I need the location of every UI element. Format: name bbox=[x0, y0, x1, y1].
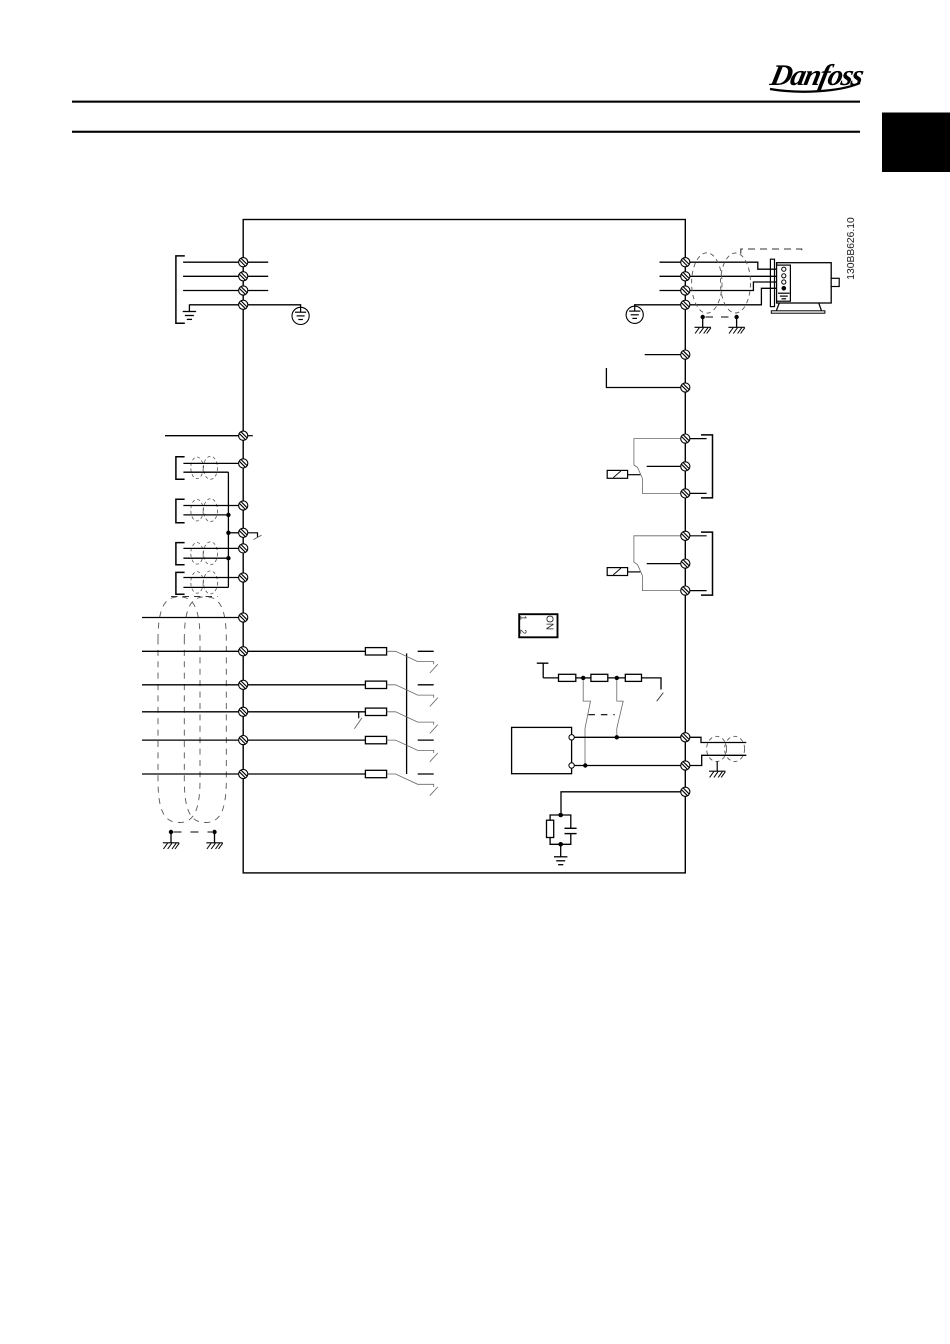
wire R1-R2 bbox=[576, 677, 591, 679]
analog pair 4 shield bbox=[191, 571, 218, 594]
switch DI27 bbox=[387, 712, 438, 734]
motor shield ellipse 1 bbox=[692, 253, 722, 313]
wire 18 right bbox=[248, 650, 366, 652]
resistor chain R2 bbox=[591, 674, 608, 681]
terminal aux bbox=[239, 573, 248, 582]
header rule 2 bbox=[72, 131, 860, 133]
switch DI18 bbox=[387, 651, 438, 673]
shield dot left 1 bbox=[169, 830, 173, 834]
contact dash DI29 bbox=[418, 739, 434, 741]
RC cap branch bbox=[561, 815, 571, 828]
relay 1 coil stub bbox=[628, 474, 641, 476]
terminal 95 PE bbox=[239, 300, 248, 309]
blade chain bbox=[657, 693, 664, 702]
wire 32 left bbox=[142, 773, 239, 775]
bracket A53 bbox=[176, 457, 185, 480]
wire 54 bbox=[183, 505, 238, 507]
RC gnd stem bbox=[560, 844, 562, 857]
RC resistor bbox=[547, 820, 554, 837]
shield gnd stem 2 bbox=[736, 317, 738, 327]
wire 42 bbox=[183, 547, 238, 549]
junction dot 55 bbox=[226, 531, 230, 535]
svg-text:130BB626.10: 130BB626.10 bbox=[846, 217, 857, 280]
wire R2-R3 bbox=[608, 677, 626, 679]
wire 20 common bbox=[142, 617, 239, 619]
motor cable V bbox=[690, 275, 782, 277]
relay 2 stub 04 bbox=[690, 535, 707, 537]
motor cable U bbox=[690, 262, 782, 269]
wire W inside bbox=[660, 290, 681, 292]
relay 2 stub 05 bbox=[647, 563, 681, 565]
wire 29 right bbox=[248, 739, 366, 741]
terminal 92 L2 bbox=[239, 272, 248, 281]
relay 1 stub 01 bbox=[690, 438, 707, 440]
wire 19 right bbox=[248, 684, 366, 686]
wire 61 bbox=[561, 792, 681, 813]
terminal 93 L3 bbox=[239, 286, 248, 295]
bracket A54 bbox=[176, 499, 185, 523]
block pin 1 bbox=[569, 735, 574, 740]
switch DI32 bbox=[387, 774, 438, 796]
motor base plate bbox=[771, 311, 825, 313]
relay 2 coil stub bbox=[628, 571, 641, 573]
blade 27 bbox=[354, 718, 362, 729]
terminal 01 bbox=[681, 434, 690, 443]
terminal 88 bbox=[681, 350, 690, 359]
svg-text:2: 2 bbox=[518, 629, 528, 634]
wire U inside bbox=[660, 261, 681, 263]
wire V inside bbox=[660, 275, 681, 277]
terminal 99 PE bbox=[681, 300, 690, 309]
protective earth right bbox=[626, 306, 643, 323]
wire 19 left bbox=[142, 684, 239, 686]
resistor DI18 bbox=[365, 648, 386, 655]
ground mains bbox=[188, 304, 190, 311]
analog pair 1 shield bbox=[191, 456, 218, 479]
stub 27 output bbox=[358, 712, 360, 719]
gang link dashed bbox=[588, 714, 614, 716]
block pin 2 bbox=[569, 763, 574, 768]
supply block bbox=[512, 727, 572, 773]
RC capacitor bbox=[565, 828, 577, 833]
wire 13 bbox=[574, 765, 680, 767]
RC bottom dot bbox=[558, 842, 563, 847]
relay 2 coil bbox=[607, 568, 627, 576]
terminal 61 bbox=[681, 787, 690, 796]
junction dot 54 bbox=[226, 513, 230, 517]
terminal 05 bbox=[681, 559, 690, 568]
relay 2 contact path bbox=[634, 536, 680, 591]
motor terminal PE dot bbox=[782, 286, 787, 291]
wire 53 return bbox=[183, 471, 228, 473]
switch S201 bbox=[583, 680, 590, 765]
motor shield ellipse 2 bbox=[721, 253, 751, 313]
relay 1 stub 02 bbox=[647, 465, 681, 467]
motor shaft bbox=[831, 278, 839, 286]
dashed screen corner bbox=[741, 249, 802, 254]
motor cable W bbox=[690, 282, 782, 291]
control cable shield loop 2 bbox=[184, 597, 226, 823]
wire 54 return bbox=[183, 514, 228, 516]
24V bus vertical bbox=[406, 653, 408, 774]
shield gnd stem left 1 bbox=[170, 832, 172, 843]
terminal 89 bbox=[681, 383, 690, 392]
common trunk wire bbox=[227, 472, 229, 587]
relay 1 contact path bbox=[634, 439, 680, 494]
shield dot left 2 bbox=[212, 830, 216, 834]
terminal 97 V bbox=[681, 272, 690, 281]
motor terminal box bbox=[777, 265, 791, 301]
shield gnd stem left 2 bbox=[214, 832, 216, 843]
motor pedestal bbox=[776, 303, 821, 311]
relay 2 bracket bbox=[701, 532, 713, 595]
terminal 27 bbox=[239, 707, 248, 716]
wire R3 end bbox=[642, 678, 662, 690]
motor body bbox=[777, 263, 832, 303]
wire 27 right bbox=[248, 711, 366, 713]
shield bond dot 1 bbox=[701, 315, 705, 319]
terminal 20 bbox=[239, 613, 248, 622]
motor ground bbox=[778, 293, 790, 299]
junction dot 13 bbox=[583, 763, 587, 767]
wire 12 bbox=[574, 736, 680, 738]
frequency converter enclosure box bbox=[243, 220, 685, 873]
resistor DI29 bbox=[365, 736, 386, 743]
24V source T bbox=[537, 663, 559, 678]
blade 55 bbox=[254, 535, 262, 539]
switch S202 bbox=[617, 680, 623, 737]
RC top dot bbox=[558, 813, 563, 818]
junction dot chain 1 bbox=[581, 676, 585, 680]
bus wire N bbox=[690, 755, 746, 765]
resistor chain R1 bbox=[559, 674, 576, 681]
resistor DI27 bbox=[365, 708, 386, 715]
contact dash DI18 bbox=[418, 650, 434, 652]
header rule 1 bbox=[72, 101, 860, 103]
relay 1 stub 03 bbox=[690, 492, 707, 494]
terminal 04 bbox=[681, 531, 690, 540]
motor terminal U bbox=[782, 267, 786, 271]
contact dash DI19 bbox=[418, 684, 434, 686]
control cable shield loop 1 bbox=[158, 597, 200, 823]
RC resistor bottom bbox=[550, 838, 561, 845]
wire L1 bbox=[183, 261, 268, 263]
shield gnd stem 1 bbox=[702, 317, 704, 327]
svg-text:1: 1 bbox=[518, 615, 528, 620]
wire PE input bbox=[189, 305, 300, 308]
junction dot chain 2 bbox=[615, 676, 619, 680]
shield bond dot 2 bbox=[734, 315, 738, 319]
bracket aux bbox=[176, 572, 185, 594]
terminal 96 U bbox=[681, 258, 690, 267]
motor terminal V bbox=[782, 274, 786, 278]
cable clamp bar bbox=[770, 259, 774, 306]
terminal 18 bbox=[239, 647, 248, 656]
terminal 19 bbox=[239, 680, 248, 689]
terminal 32 bbox=[239, 769, 248, 778]
wire PE motor inside bbox=[635, 305, 681, 311]
bus shield ellipse 2 bbox=[725, 736, 745, 761]
DIP switch S801 box bbox=[519, 614, 557, 637]
wire 53 bbox=[183, 462, 238, 464]
relay 2 stub 06 bbox=[690, 590, 707, 592]
shield gnd 1 bbox=[695, 327, 711, 333]
resistor DI32 bbox=[365, 770, 386, 777]
control cable shield chord bbox=[171, 596, 218, 598]
chapter tab bbox=[882, 113, 950, 173]
wire 88 DC bbox=[645, 354, 681, 356]
relay 1 coil bbox=[607, 470, 627, 478]
wire 89 DC bbox=[606, 368, 680, 388]
terminal 02 bbox=[681, 462, 690, 471]
bus shield gnd bbox=[709, 771, 725, 777]
mains input bracket bbox=[176, 256, 185, 323]
shield gnd 2 bbox=[728, 327, 744, 333]
terminal 53 bbox=[239, 459, 248, 468]
motor cable PE bbox=[690, 288, 782, 305]
contact dash DI32 bbox=[418, 773, 434, 775]
bracket 42 out bbox=[176, 543, 185, 565]
RC cap bottom bbox=[561, 834, 571, 845]
switch DI19 bbox=[387, 685, 438, 707]
switch DI29 bbox=[387, 740, 438, 762]
wire 29 left bbox=[142, 739, 239, 741]
protective earth left bbox=[292, 307, 309, 324]
relay 1 bracket bbox=[701, 435, 713, 498]
junction dot 12 bbox=[615, 735, 619, 739]
wire L2 bbox=[183, 275, 268, 277]
bus shield stem bbox=[716, 762, 718, 772]
wire 18 left bbox=[142, 650, 239, 652]
shield gnd left 1 bbox=[163, 843, 179, 849]
terminal 91 L1 bbox=[239, 258, 248, 267]
wire 32 right bbox=[248, 773, 366, 775]
junction dot 42 bbox=[226, 556, 230, 560]
wire 55 common bbox=[228, 532, 238, 534]
bus wire P bbox=[690, 737, 746, 742]
resistor DI19 bbox=[365, 681, 386, 688]
bus shield ellipse 1 bbox=[707, 736, 727, 761]
terminal 42 bbox=[239, 544, 248, 553]
analog pair 3 shield bbox=[191, 542, 218, 565]
wire 27 left bbox=[142, 711, 239, 713]
motor terminal W bbox=[782, 280, 786, 284]
terminal 54 bbox=[239, 501, 248, 510]
wire 42 return bbox=[183, 557, 228, 559]
stub 50 bbox=[248, 435, 253, 437]
wire aux return bbox=[183, 586, 228, 588]
dashed bond link left bbox=[174, 831, 213, 833]
Danfoss logo bbox=[767, 58, 867, 92]
wire L3 bbox=[183, 290, 268, 292]
terminal 29 bbox=[239, 736, 248, 745]
terminal 03 bbox=[681, 489, 690, 498]
terminal 13 bbox=[681, 761, 690, 770]
svg-text:ON: ON bbox=[544, 615, 555, 630]
RC ground bbox=[554, 857, 567, 865]
terminal 12 bbox=[681, 733, 690, 742]
analog pair 2 shield bbox=[191, 499, 218, 522]
terminal 06 bbox=[681, 586, 690, 595]
resistor chain R3 bbox=[625, 674, 641, 681]
RC resistor branch bbox=[550, 815, 561, 820]
wire 50 +10V bbox=[165, 435, 239, 437]
dashed bond link motor bbox=[706, 316, 734, 318]
shield gnd left 2 bbox=[206, 843, 222, 849]
terminal 98 W bbox=[681, 286, 690, 295]
stub 55 hook bbox=[248, 533, 258, 537]
wire aux bbox=[183, 577, 238, 579]
terminal 55 bbox=[239, 528, 248, 537]
terminal 50 bbox=[239, 431, 248, 440]
